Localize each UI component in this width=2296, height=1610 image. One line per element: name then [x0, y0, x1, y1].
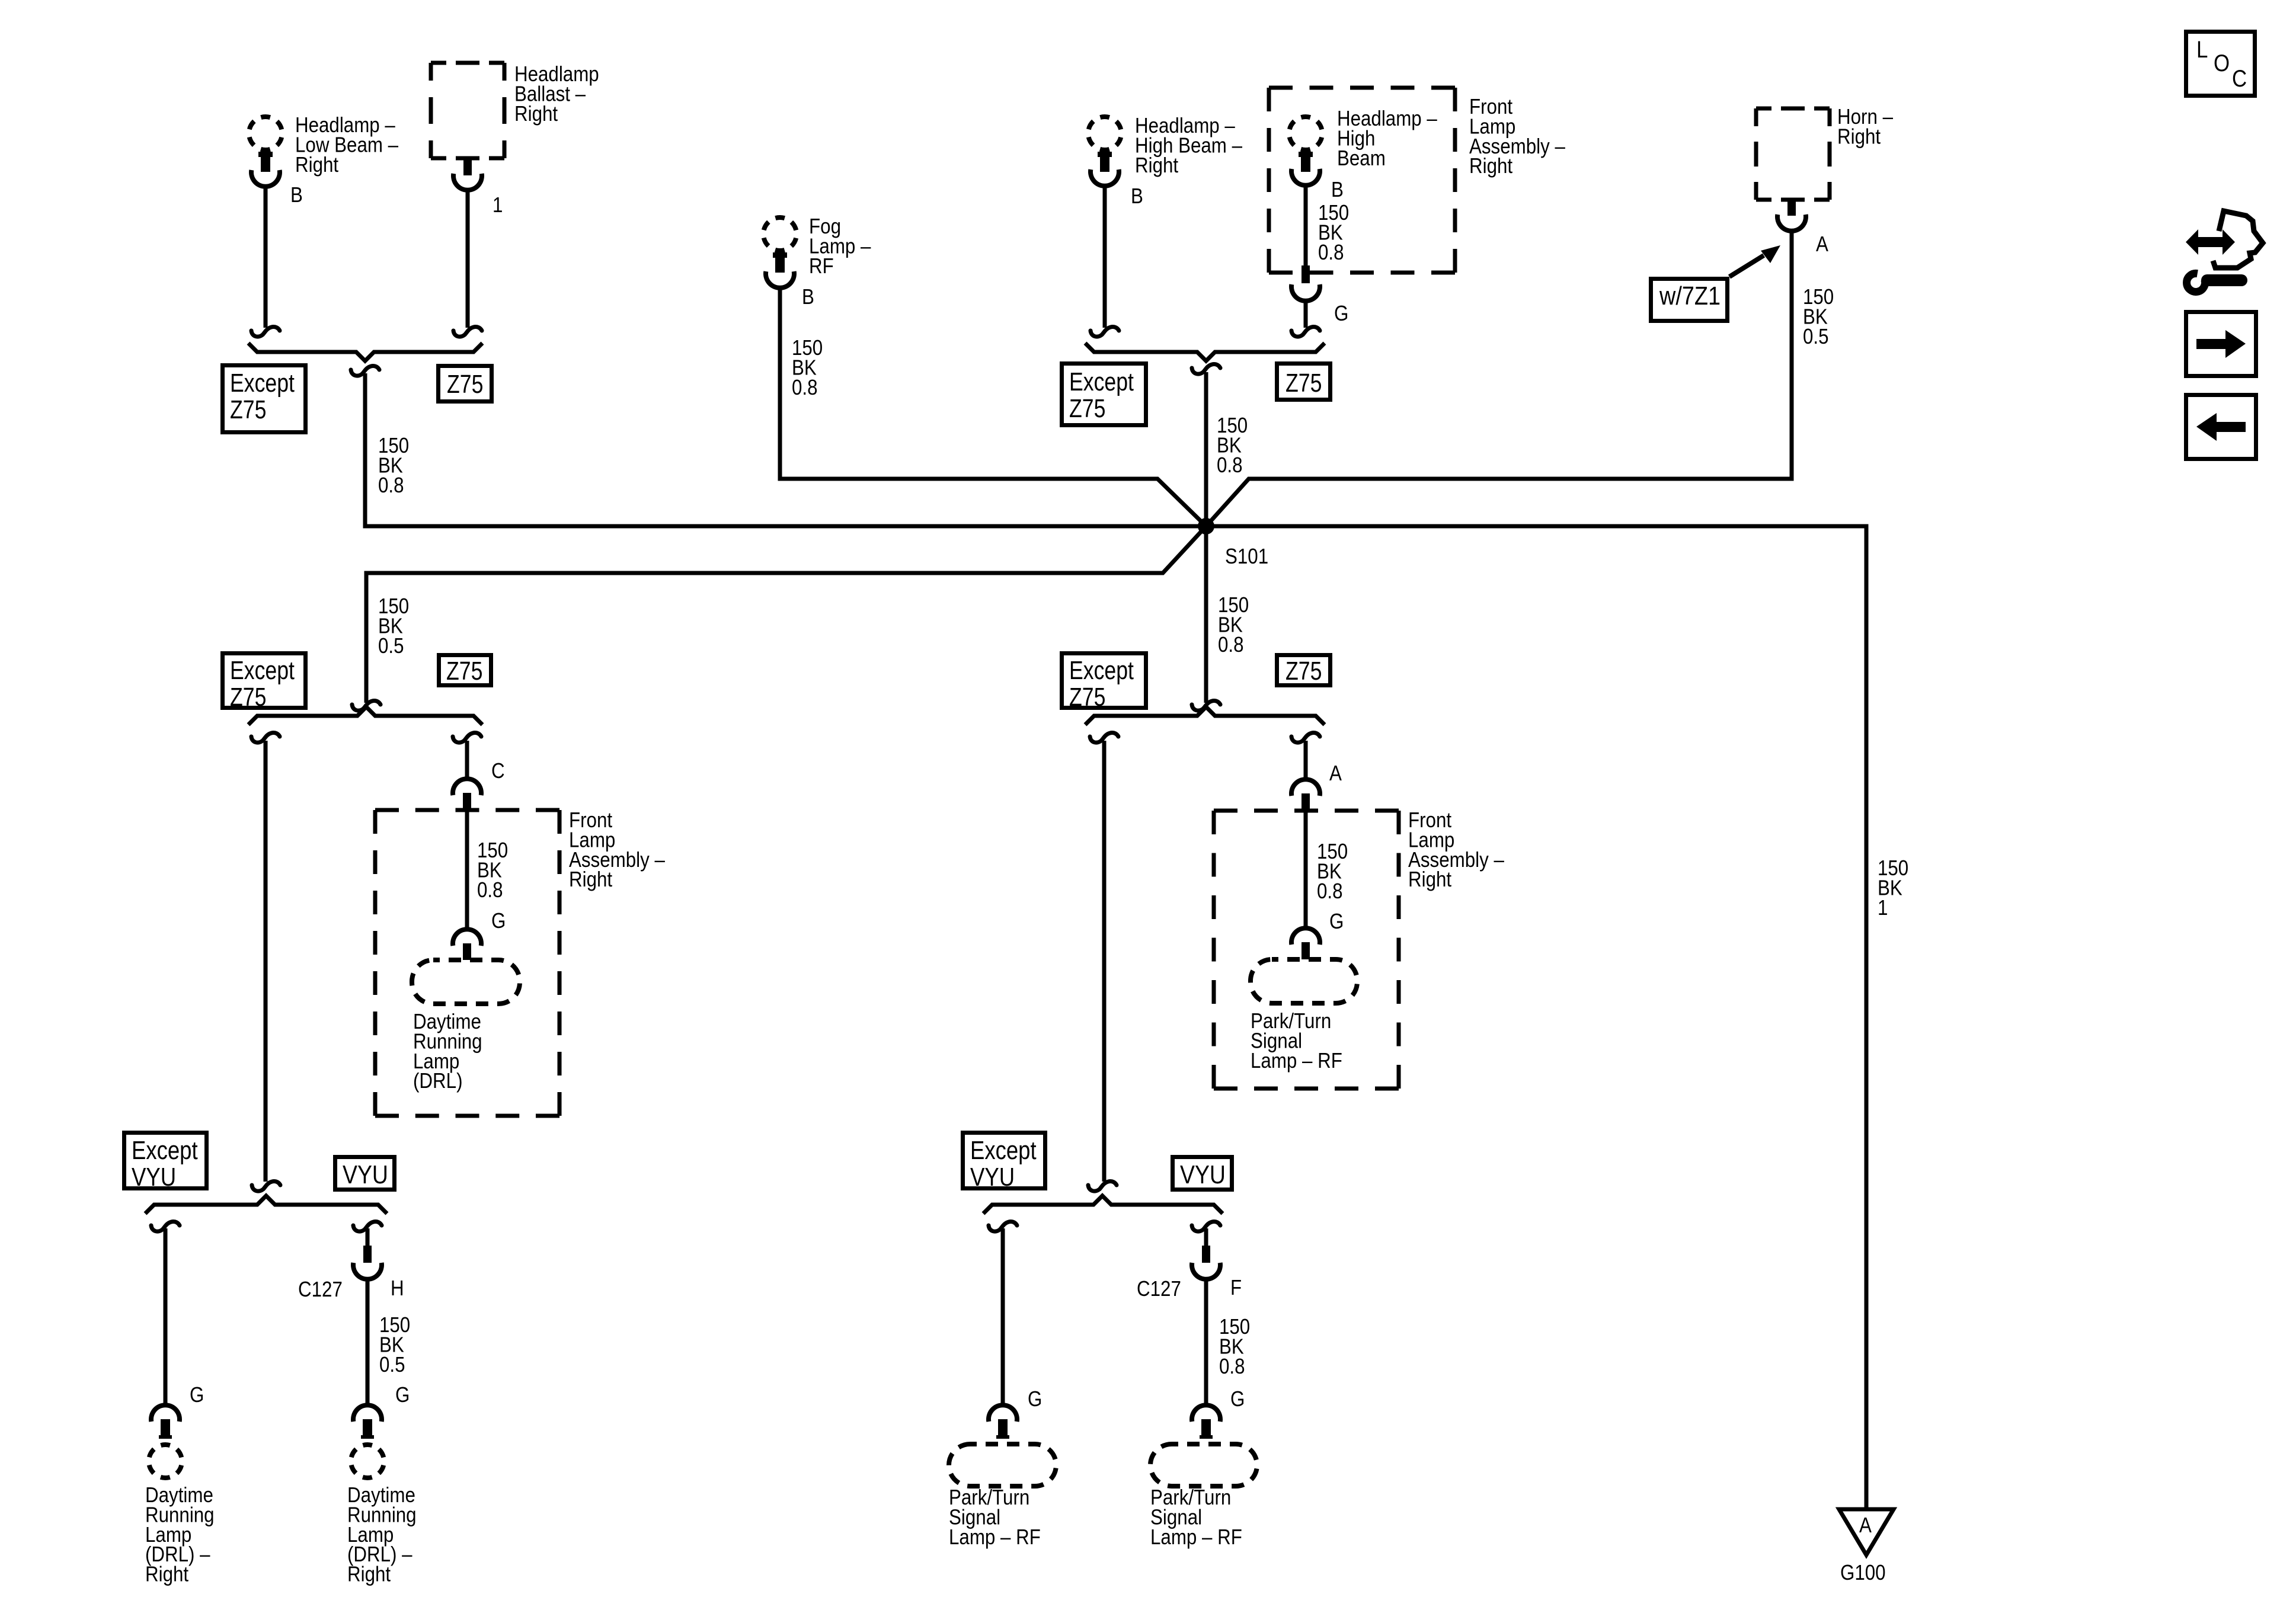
hook tier-2 left branch b: [453, 732, 481, 742]
wire right brace to splice S101: [1204, 372, 1208, 526]
connector pin (park/turn outer): [998, 1419, 1008, 1439]
svg-text:G: G: [491, 908, 506, 933]
wire ballast to splice brace: [466, 190, 470, 328]
next page arrow box: [2186, 312, 2256, 376]
svg-text:C: C: [491, 758, 505, 783]
svg-text:Z75: Z75: [230, 683, 266, 712]
svg-text:F: F: [1230, 1275, 1242, 1299]
high beam connector cup B: [1091, 169, 1119, 186]
svg-text:B: B: [1131, 184, 1143, 208]
low beam connector cup B: [251, 170, 280, 187]
Z75 option box tier-2 left: [439, 655, 491, 686]
svg-text:1: 1: [493, 193, 503, 217]
wire end hook (ballast): [453, 327, 482, 337]
assembly high beam connector cup B: [1291, 169, 1320, 185]
LOC legend box: [2186, 32, 2255, 96]
wire VYU right branch a: [1001, 1228, 1005, 1405]
horn right dashed box: [1756, 107, 1830, 111]
wire tier-2 right branch a: [1102, 741, 1107, 1182]
connector pin into assembly (C): [463, 793, 471, 810]
svg-text:VYU: VYU: [1180, 1160, 1226, 1189]
svg-text:B: B: [1331, 177, 1344, 201]
front lamp assembly right dashed box (tier-2 left): [375, 808, 559, 812]
wire VYU right branch b: [1204, 1228, 1208, 1246]
svg-text:A: A: [1329, 761, 1342, 785]
svg-text:L: L: [2196, 37, 2208, 63]
svg-text:Lamp – RF: Lamp – RF: [1150, 1525, 1242, 1549]
svg-text:A: A: [1859, 1513, 1872, 1537]
svg-text:RF: RF: [809, 254, 834, 278]
tier-2 left option brace (Except Z75 / Z75): [248, 707, 482, 725]
svg-text:G: G: [1334, 301, 1348, 325]
svg-text:Right: Right: [295, 152, 338, 177]
wire end hook (low beam): [251, 327, 280, 337]
svg-text:0.8: 0.8: [1218, 632, 1244, 657]
daytime running lamp right outer symbol: [149, 1445, 182, 1478]
connector pin into assembly (A): [1302, 793, 1310, 811]
hook tier-2 left branch a: [251, 732, 280, 742]
ballast connector cup 1: [453, 174, 482, 190]
svg-text:Z75: Z75: [230, 395, 266, 424]
svg-text:B: B: [290, 183, 303, 207]
fog lamp RF lamp symbol: [763, 217, 797, 251]
wire tier-2 left branch b: [465, 741, 469, 779]
fog lamp connector cup B: [766, 271, 794, 288]
high beam connector pin: [1100, 152, 1109, 172]
hook above tier-2 left brace: [352, 700, 380, 710]
svg-text:C127: C127: [298, 1277, 343, 1301]
svg-text:0.8: 0.8: [792, 375, 818, 399]
assembly G connector cup: [1291, 284, 1320, 301]
svg-text:Z75: Z75: [446, 657, 482, 686]
wire fog lamp to splice S101: [780, 288, 1206, 526]
svg-text:Lamp – RF: Lamp – RF: [1251, 1048, 1342, 1073]
connector pin (DRL right outer): [161, 1419, 170, 1439]
hook VYU left branch b: [353, 1221, 382, 1231]
Except VYU option box left: [124, 1133, 207, 1189]
assembly box bottom pin: [1302, 265, 1310, 283]
Except VYU option box right: [963, 1133, 1045, 1189]
splice S101 junction dot: [1198, 518, 1214, 534]
wire S101 to right tier-2 drop: [1204, 526, 1208, 703]
VYU option box right: [1173, 1157, 1232, 1190]
daytime running lamp (DRL) symbol: [412, 960, 520, 1004]
connector pin (DRL right inner): [363, 1419, 372, 1439]
svg-text:Z75: Z75: [1285, 657, 1322, 686]
wire high beam to splice brace: [1103, 186, 1107, 328]
Except Z75 option box: [223, 366, 306, 433]
svg-text:Right: Right: [1408, 867, 1451, 891]
wire assembly G to splice brace: [1304, 301, 1308, 328]
svg-text:Right: Right: [569, 867, 612, 891]
svg-text:VYU: VYU: [970, 1163, 1015, 1192]
park/turn signal lamp RF outer symbol: [949, 1444, 1056, 1486]
wire VYU left branch a: [164, 1228, 168, 1405]
svg-text:w/7Z1: w/7Z1: [1659, 281, 1721, 311]
connector pin to DRL lamp: [463, 943, 471, 960]
svg-text:Z75: Z75: [1069, 683, 1105, 712]
svg-text:Right: Right: [1469, 153, 1512, 178]
Except Z75 option box tier-2 right: [1062, 654, 1146, 708]
wire S101 to left tier-2 drop: [366, 526, 1206, 703]
svg-text:0.8: 0.8: [1317, 879, 1343, 903]
tier-2 right option brace (Except Z75 / Z75): [1085, 707, 1325, 725]
svg-text:0.5: 0.5: [379, 1352, 405, 1377]
svg-text:0.5: 0.5: [1803, 324, 1829, 348]
svg-text:VYU: VYU: [343, 1160, 388, 1189]
svg-text:Right: Right: [347, 1562, 391, 1586]
Z75 option box: [439, 366, 492, 402]
wire inside assembly tier-2 right: [1304, 811, 1308, 928]
hook below left brace: [351, 366, 379, 376]
hook below right brace: [1192, 364, 1220, 374]
svg-text:0.8: 0.8: [1219, 1354, 1245, 1378]
VYU option brace left: [145, 1196, 387, 1214]
horn connector cup A: [1777, 215, 1806, 231]
hook VYU right branch b: [1192, 1221, 1220, 1231]
svg-text:Z75: Z75: [447, 370, 483, 399]
svg-text:(DRL): (DRL): [413, 1068, 463, 1093]
svg-text:Beam: Beam: [1337, 146, 1386, 170]
svg-text:0.8: 0.8: [477, 878, 503, 902]
connector C127 pin (F): [1202, 1246, 1210, 1263]
wire main bus left drop to ground run: [365, 373, 1866, 1510]
svg-text:Except: Except: [1069, 656, 1134, 685]
connector cup G (park/turn inner): [1192, 1405, 1220, 1422]
hook tier-2 right branch a: [1090, 732, 1118, 742]
option split brace left (Except Z75 / Z75): [248, 343, 482, 361]
headlamp ballast right dashed box: [431, 61, 504, 65]
svg-text:S101: S101: [1225, 544, 1268, 568]
wire inside assembly box: [1304, 185, 1308, 265]
wire VYU left branch b: [366, 1228, 370, 1246]
wire C127 H to DRL lamp: [366, 1279, 370, 1405]
wire end hook (assembly G): [1291, 327, 1320, 337]
svg-text:0.8: 0.8: [1217, 453, 1243, 477]
svg-text:0.8: 0.8: [1318, 240, 1344, 264]
svg-text:Right: Right: [514, 101, 558, 126]
svg-text:Z75: Z75: [1285, 369, 1322, 398]
svg-text:Except: Except: [970, 1136, 1037, 1165]
hook VYU right branch a: [989, 1221, 1017, 1231]
svg-text:Except: Except: [230, 656, 295, 685]
headlamp low beam right lamp symbol E1: [249, 117, 282, 150]
connector C127 pin (H): [363, 1246, 372, 1263]
option split brace right (Except Z75 / Z75): [1085, 343, 1325, 361]
connector pin to park/turn lamp: [1302, 942, 1310, 959]
svg-text:G: G: [190, 1382, 204, 1407]
daytime running lamp right inner symbol: [351, 1445, 384, 1478]
Z75 option box right: [1277, 364, 1331, 400]
svg-text:A: A: [1816, 232, 1828, 256]
wire tier-2 right branch b: [1304, 741, 1308, 779]
Except Z75 option box right: [1062, 364, 1146, 425]
connector cup G (DRL): [453, 929, 481, 946]
svg-text:H: H: [391, 1276, 404, 1300]
headlamp high beam right lamp symbol: [1088, 117, 1121, 150]
svg-text:1: 1: [1878, 895, 1888, 920]
connector cup G (DRL right outer): [151, 1405, 180, 1422]
connector cup C (DRL feed): [453, 779, 481, 795]
front lamp assembly right dashed box (tier-2 right): [1214, 809, 1399, 813]
wire end hook (high beam): [1091, 327, 1119, 337]
connector cup A (park/turn feed): [1291, 779, 1320, 796]
VYU option box left: [335, 1157, 395, 1190]
svg-text:Right: Right: [145, 1562, 188, 1586]
connector C127 cup (F): [1192, 1263, 1220, 1279]
svg-text:G: G: [1329, 909, 1344, 933]
hook above VYU left brace: [252, 1181, 280, 1191]
svg-text:Except: Except: [230, 369, 295, 398]
w/7Z1 arrow: [1729, 255, 1764, 277]
headlamp high beam lamp symbol inside assembly: [1289, 117, 1322, 150]
front lamp assembly right dashed box (top): [1269, 86, 1455, 90]
hook above tier-2 right brace: [1192, 700, 1220, 710]
svg-text:Z75: Z75: [1069, 394, 1105, 423]
svg-text:Except: Except: [1069, 367, 1134, 396]
svg-text:B: B: [802, 284, 814, 309]
svg-text:C127: C127: [1137, 1276, 1181, 1301]
svg-text:G: G: [1028, 1387, 1042, 1411]
connector cup G (park/turn outer): [989, 1405, 1017, 1422]
svg-text:O: O: [2214, 50, 2230, 76]
connector pin (park/turn inner): [1201, 1419, 1211, 1439]
svg-text:0.8: 0.8: [378, 473, 404, 497]
svg-text:C: C: [2232, 66, 2247, 92]
w/7Z1 callout box: [1651, 279, 1728, 321]
Z75 option box tier-2 right: [1277, 655, 1331, 686]
svg-text:G100: G100: [1840, 1560, 1886, 1585]
Except Z75 option box tier-2 left: [223, 654, 306, 708]
park/turn signal lamp RF inner symbol: [1150, 1444, 1257, 1486]
wire C127 F to park/turn lamp: [1204, 1279, 1208, 1405]
component view icon (double arrow, panel outline, wrench): [2186, 229, 2235, 255]
svg-text:Except: Except: [132, 1136, 198, 1165]
ballast connector pin: [463, 158, 472, 175]
connector cup G (DRL right inner): [353, 1405, 382, 1422]
wire low beam to splice brace: [264, 187, 268, 328]
wire inside assembly tier-2 left: [465, 810, 469, 929]
svg-text:G: G: [1230, 1387, 1245, 1411]
hook VYU left branch a: [151, 1221, 180, 1231]
svg-text:Lamp – RF: Lamp – RF: [949, 1525, 1041, 1549]
svg-text:Right: Right: [1837, 124, 1881, 148]
svg-text:Right: Right: [1135, 153, 1178, 177]
connector C127 cup (H): [353, 1263, 382, 1279]
connector cup G (park/turn): [1291, 928, 1320, 945]
wire tier-2 left branch a: [264, 741, 268, 1182]
low beam connector pin: [261, 152, 270, 172]
assembly high beam connector pin: [1301, 152, 1310, 172]
ground symbol G100 triangle: [1839, 1509, 1894, 1555]
previous page arrow box: [2186, 395, 2256, 459]
hook tier-2 right branch b: [1291, 732, 1320, 742]
fog lamp connector pin: [775, 252, 785, 273]
park/turn signal lamp RF symbol: [1251, 959, 1357, 1003]
hook above VYU right brace: [1088, 1181, 1117, 1191]
svg-text:G: G: [395, 1382, 410, 1407]
svg-text:0.5: 0.5: [378, 633, 404, 658]
VYU option brace right: [983, 1196, 1223, 1214]
svg-text:VYU: VYU: [132, 1163, 176, 1192]
horn connector pin: [1787, 200, 1796, 216]
wire horn to splice S101: [1206, 231, 1792, 526]
